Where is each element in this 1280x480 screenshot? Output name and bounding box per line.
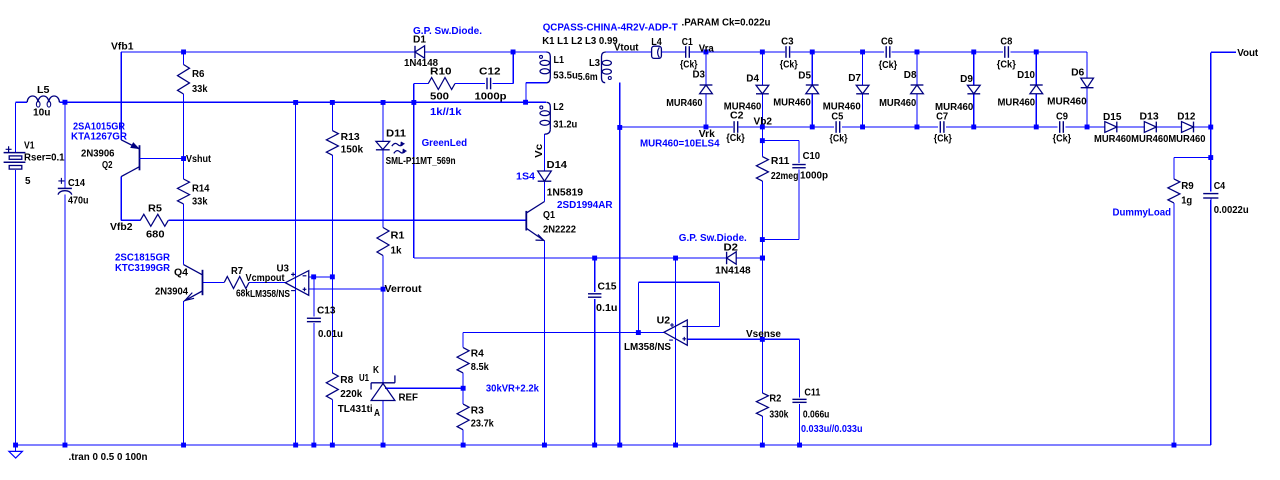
wire Q1 emitter to ground [544, 241, 546, 445]
svg-text:MUR460: MUR460 [823, 102, 861, 113]
node label Vb2 [754, 117, 773, 128]
svg-text:Q4: Q4 [174, 268, 188, 279]
svg-text:C14: C14 [68, 178, 85, 189]
svg-text:R1: R1 [391, 231, 405, 242]
svg-text:R8: R8 [340, 375, 353, 386]
svg-text:31.2u: 31.2u [553, 120, 577, 131]
svg-text:.tran 0 0.5 0 100n: .tran 0 0.5 0 100n [69, 452, 148, 463]
junction ground/C15 [592, 443, 597, 448]
capacitor C7 [934, 111, 952, 144]
svg-text:D10: D10 [1017, 70, 1035, 81]
junction ground/V1 [13, 443, 18, 448]
svg-text:C3: C3 [781, 37, 794, 48]
svg-text:1000p: 1000p [800, 171, 828, 182]
junction Vout column [1208, 125, 1213, 130]
svg-text:C12: C12 [479, 67, 501, 78]
resistor R9 [1168, 179, 1194, 207]
junction node Vra [704, 50, 709, 55]
junction Vsense/D2 column [760, 256, 765, 261]
wire R2 branch [761, 339, 763, 445]
junction ground/R3 [461, 443, 466, 448]
svg-text:L1: L1 [554, 55, 565, 66]
junction D10 bottom [1034, 125, 1039, 130]
op-amp U2 (LM358) [624, 315, 687, 353]
capacitor C5 [830, 111, 848, 144]
svg-text:0.0022u: 0.0022u [1214, 205, 1249, 216]
svg-text:MUR460: MUR460 [879, 98, 917, 109]
svg-text:{Ck}: {Ck} [1053, 134, 1072, 145]
node label Vfb1 [111, 42, 134, 53]
junction ground/C13 [311, 443, 316, 448]
diode D13 [1140, 111, 1160, 132]
diode D5 [773, 70, 818, 108]
capacitor C13 [307, 306, 343, 341]
svg-text:U2: U2 [657, 315, 671, 326]
svg-text:C5: C5 [831, 111, 843, 122]
svg-text:500: 500 [430, 92, 449, 103]
capacitor C14 (polarised) [58, 178, 89, 207]
svg-text:R11: R11 [771, 156, 790, 167]
svg-text:Verrout: Verrout [385, 284, 423, 295]
svg-text:REF: REF [399, 393, 419, 404]
svg-text:1N4148: 1N4148 [715, 266, 751, 277]
junction D6 bottom [1085, 125, 1090, 130]
svg-text:10u: 10u [33, 108, 51, 119]
wire U2 power drop [675, 258, 677, 445]
wire D3 leads [705, 52, 707, 127]
svg-text:0.033u//0.033u: 0.033u//0.033u [801, 424, 863, 435]
junction D10 top [1034, 50, 1039, 55]
node label Vfb2 [110, 222, 133, 233]
svg-text:D13: D13 [1140, 111, 1160, 122]
junction C13 tap [311, 274, 316, 279]
junction ground/R8 [330, 443, 335, 448]
wire box left vertical [413, 102, 415, 258]
svg-text:22meg: 22meg [771, 171, 799, 182]
comment 30kVR+2.2k [486, 384, 539, 395]
svg-text:D5: D5 [798, 70, 811, 81]
svg-text:33k: 33k [192, 84, 208, 95]
node label Vra [699, 44, 714, 55]
wire net Vfb1 top rail [121, 52, 546, 140]
capacitor C6 [879, 37, 898, 71]
junction R11/C10 bottom [760, 237, 765, 242]
junction rail/U3 V+ [293, 100, 298, 105]
svg-text:Vfb1: Vfb1 [111, 42, 134, 53]
svg-text:C6: C6 [881, 37, 893, 48]
svg-text:R6: R6 [192, 69, 205, 80]
diode D7 [823, 73, 869, 113]
svg-text:R2: R2 [769, 394, 781, 405]
svg-text:Vtout: Vtout [614, 42, 639, 53]
wire R6-R14 chain [183, 52, 185, 445]
resistor R13 [326, 131, 363, 156]
junction C15 top [592, 256, 597, 261]
wire U2 feedback loop [638, 282, 719, 332]
svg-text:1N5819: 1N5819 [547, 187, 584, 198]
wire REF line [385, 387, 463, 389]
diode D8 [879, 70, 923, 109]
junction D5 bottom [810, 125, 815, 130]
junction ground/C11 [797, 443, 802, 448]
wire C15 branch [594, 258, 596, 445]
svg-text:MUR460: MUR460 [935, 102, 974, 113]
svg-text:LM358/NS: LM358/NS [624, 342, 671, 353]
resistor R2 [756, 393, 788, 421]
svg-text:L4: L4 [651, 37, 662, 48]
junction D7 top [860, 50, 865, 55]
svg-text:D12: D12 [1177, 111, 1196, 122]
svg-text:R9: R9 [1181, 181, 1194, 192]
comment 1k//1k [430, 107, 462, 118]
inductor L4 (bead) [651, 37, 662, 59]
capacitor C3 [780, 37, 798, 71]
wire L3 return [619, 83, 621, 445]
svg-text:Q1: Q1 [543, 210, 555, 221]
svg-text:U3: U3 [277, 264, 290, 275]
resistor R6 [178, 65, 208, 96]
svg-text:330k: 330k [769, 410, 788, 421]
svg-text:2SC1815GR: 2SC1815GR [115, 253, 171, 264]
svg-text:G.P. Sw.Diode.: G.P. Sw.Diode. [679, 233, 747, 244]
svg-text:D8: D8 [904, 70, 917, 81]
LED D11 [376, 129, 467, 168]
wire D14 to Q1 collector [544, 182, 546, 202]
junction ground/U2 V- [673, 443, 678, 448]
svg-text:SML-P11MT_569n: SML-P11MT_569n [386, 156, 456, 167]
comment DummyLoad [1113, 207, 1172, 218]
wire net Vout [1211, 52, 1236, 127]
wire Vout to loads [1210, 127, 1212, 445]
junction node Vshut [181, 156, 186, 161]
wire U2 output to R4 [463, 333, 664, 348]
spice directive K1 coupling [542, 36, 618, 47]
svg-text:MUR460=10ELS4: MUR460=10ELS4 [640, 139, 720, 150]
resistor R8 [326, 373, 362, 400]
svg-text:L3: L3 [589, 58, 600, 69]
resistor R1 [377, 228, 405, 257]
svg-text:R4: R4 [471, 349, 484, 360]
svg-text:C1: C1 [682, 37, 693, 48]
svg-text:8.5k: 8.5k [471, 362, 489, 373]
voltage source V1 [4, 141, 65, 188]
transistor Q2 (PNP) [71, 121, 184, 176]
junction REF node [461, 386, 466, 391]
svg-text:D6: D6 [1071, 68, 1085, 79]
svg-text:Vcmpout: Vcmpout [246, 273, 286, 284]
junction Vfb1/R6 [181, 50, 186, 55]
wire net Vcmpout [249, 282, 285, 284]
junction ground/Q4 emitter [181, 443, 186, 448]
comment transformer spec [543, 23, 678, 34]
svg-text:150k: 150k [341, 145, 364, 156]
svg-text:33k: 33k [192, 197, 208, 208]
svg-text:2SD1994AR: 2SD1994AR [557, 200, 613, 211]
wire mid rail y258 [414, 257, 763, 259]
junction U2 V+ tap [673, 256, 678, 261]
junction ground/C14 [63, 443, 68, 448]
svg-text:Vfb2: Vfb2 [110, 222, 133, 233]
svg-text:KTC3199GR: KTC3199GR [115, 263, 171, 274]
wire CW top rail [690, 51, 1087, 53]
wire ground rail [16, 199, 1211, 446]
svg-text:Vout: Vout [1237, 48, 1259, 59]
wire Q2 collector drop [120, 177, 122, 221]
transistor Q1 (NPN) [526, 202, 576, 241]
svg-text:MUR460: MUR460 [666, 98, 703, 109]
op-amp U3 (LM358) [250, 264, 309, 301]
junction ground/Q1 emitter [542, 443, 547, 448]
svg-text:V1: V1 [24, 141, 35, 152]
svg-text:C15: C15 [598, 281, 617, 292]
spice directive .PARAM [682, 17, 771, 28]
svg-text:K1 L1 L2 L3 0.99: K1 L1 L2 L3 0.99 [542, 36, 618, 47]
svg-text:R14: R14 [192, 184, 210, 195]
svg-text:470u: 470u [68, 196, 89, 207]
svg-text:GreenLed: GreenLed [422, 138, 468, 149]
capacitor C1 [680, 37, 698, 71]
svg-text:C10: C10 [803, 151, 821, 162]
ground [9, 445, 23, 458]
comment MUR460=10ELS4 [640, 139, 720, 150]
svg-text:Vc: Vc [534, 143, 545, 157]
svg-text:D14: D14 [547, 160, 568, 171]
junction node Vrk [704, 125, 709, 130]
svg-text:1k: 1k [391, 246, 402, 257]
svg-text:680: 680 [146, 230, 165, 241]
capacitor C10 [792, 151, 828, 181]
svg-text:0.066u: 0.066u [803, 410, 830, 421]
svg-text:{Ck}: {Ck} [934, 134, 952, 145]
svg-text:Vsense: Vsense [746, 329, 781, 340]
node label Vc [534, 143, 545, 157]
junction D1-C12-L1 node [511, 50, 516, 55]
wire C10 branch [762, 141, 799, 240]
junction Vsense/R2 [760, 337, 765, 342]
svg-text:1k//1k: 1k//1k [430, 107, 462, 118]
svg-text:D3: D3 [693, 70, 706, 81]
capacitor C11 [792, 387, 862, 434]
wire C13 branch [313, 277, 315, 445]
capacitor C4 [1203, 181, 1249, 216]
svg-text:MUR460: MUR460 [773, 97, 811, 108]
svg-text:DummyLoad: DummyLoad [1113, 207, 1172, 218]
svg-text:MUR460: MUR460 [1047, 96, 1087, 107]
svg-text:.PARAM Ck=0.022u: .PARAM Ck=0.022u [682, 17, 771, 28]
svg-text:MUR460: MUR460 [998, 97, 1036, 108]
wire snubber [414, 52, 514, 102]
svg-text:D11: D11 [386, 129, 406, 140]
diode D14 [516, 160, 613, 211]
junction D5 top [810, 50, 815, 55]
svg-text:2SA1015GR: 2SA1015GR [73, 121, 126, 132]
svg-text:U1: U1 [359, 373, 369, 384]
junction L5/C14 [63, 100, 68, 105]
svg-text:1g: 1g [1181, 196, 1192, 207]
svg-text:0.01u: 0.01u [318, 329, 343, 340]
diode D1 [404, 26, 482, 69]
junction ground/L3 [617, 443, 622, 448]
svg-text:53.5u: 53.5u [553, 71, 578, 82]
junction rail/R13 [330, 100, 335, 105]
node label Vcmpout [246, 273, 286, 284]
svg-text:C4: C4 [1214, 181, 1226, 192]
junction D2 anode node [760, 256, 765, 261]
junction ground/R9 [1172, 443, 1177, 448]
svg-text:LM358/NS: LM358/NS [250, 289, 290, 300]
diode D6 [1047, 68, 1093, 108]
junction node Verrout [381, 287, 386, 292]
wire C11 branch [799, 339, 801, 445]
wire supply rail y102 [16, 101, 547, 103]
junction D9 top [971, 50, 976, 55]
capacitor C8 [997, 37, 1016, 71]
wire R4-R3 divider [462, 373, 464, 445]
diode D12 [1177, 111, 1196, 132]
wire D11-R1-U1 chain [382, 102, 384, 445]
junction ground/U3 V- [293, 443, 298, 448]
junction rail/R10 box [411, 100, 416, 105]
svg-text:TL431ti: TL431ti [338, 404, 373, 415]
svg-text:5: 5 [25, 176, 31, 187]
svg-text:R3: R3 [471, 406, 484, 417]
shunt regulator U1 (TL431) [338, 365, 418, 419]
junction D9 bottom [971, 125, 976, 130]
svg-text:1000p: 1000p [475, 92, 507, 103]
node label Vout [1237, 48, 1259, 59]
wire D6 leads [1086, 52, 1088, 127]
svg-text:A: A [374, 408, 380, 419]
junction node Vb2 [760, 125, 765, 130]
wire R9 branch [1174, 158, 1211, 446]
svg-text:R7: R7 [231, 266, 243, 277]
junction ground/U1 anode [381, 443, 386, 448]
wire D4 leads [761, 52, 763, 127]
wire D8 leads [916, 52, 918, 127]
svg-text:Rser=0.1: Rser=0.1 [24, 153, 65, 164]
wire C14 branch [64, 102, 66, 445]
svg-text:Vshut: Vshut [186, 154, 212, 165]
svg-text:30kVR+2.2k: 30kVR+2.2k [486, 384, 539, 395]
wire CW lower rail [620, 126, 1211, 128]
svg-text:2N3904: 2N3904 [155, 287, 188, 298]
junction D8 top [915, 50, 920, 55]
svg-text:C11: C11 [804, 387, 820, 398]
diode D9 [935, 74, 980, 113]
junction L3/CW lower rail [617, 125, 622, 130]
diode D2 [679, 233, 751, 277]
svg-text:Vb2: Vb2 [754, 117, 773, 128]
junction D7 bottom [860, 125, 865, 130]
svg-text:R5: R5 [148, 204, 162, 215]
junction R13/R8 divider tap [330, 274, 335, 279]
wire net Vc [544, 134, 546, 171]
svg-text:L2: L2 [553, 102, 564, 113]
diode D15 [1103, 112, 1122, 133]
svg-text:D7: D7 [848, 73, 861, 84]
svg-text:2N3906: 2N3906 [81, 149, 115, 160]
diode D4 [724, 73, 769, 112]
node label Verrout [385, 284, 423, 295]
resistor R3 [457, 404, 494, 430]
svg-text:0.1u: 0.1u [596, 303, 618, 314]
svg-text:MUR460MUR460MUR460: MUR460MUR460MUR460 [1094, 134, 1206, 145]
wire net Vsense [687, 338, 799, 340]
inductor L3 [578, 52, 612, 83]
wire D5 leads [811, 52, 813, 127]
resistor R4 [457, 348, 489, 373]
value labels MUR460 x3 [1094, 134, 1206, 145]
wire U3 plus input [309, 288, 383, 290]
svg-text:{Ck}: {Ck} [879, 60, 898, 71]
junction D8 bottom [915, 125, 920, 130]
svg-text:C9: C9 [1056, 111, 1068, 122]
junction R9 tap [1208, 155, 1213, 160]
svg-text:23.7k: 23.7k [471, 419, 494, 430]
svg-text:G.P. Sw.Diode.: G.P. Sw.Diode. [413, 26, 482, 37]
diode D10 [998, 70, 1043, 109]
inductor L2 [540, 102, 578, 134]
svg-text:L5: L5 [37, 85, 50, 96]
svg-text:220k: 220k [340, 389, 362, 400]
svg-text:{Ck}: {Ck} [726, 133, 745, 144]
inductor L5 [27, 85, 59, 119]
svg-text:Q2: Q2 [102, 160, 113, 171]
wire Q4 base [203, 282, 225, 284]
svg-text:KTA1267GR: KTA1267GR [71, 132, 128, 143]
transistor Q4 (NPN) [115, 253, 203, 301]
svg-text:R13: R13 [341, 132, 360, 143]
junction rail/D11 [381, 100, 386, 105]
svg-text:K: K [373, 365, 380, 376]
wire Vb2 drop [761, 127, 763, 339]
resistor R14 [178, 179, 210, 208]
svg-text:68k: 68k [236, 289, 250, 300]
junction rail/L1-L2 [523, 100, 528, 105]
wire U3 minus input [309, 276, 333, 278]
svg-text:5.6m: 5.6m [578, 72, 598, 83]
node label Vsense [746, 329, 781, 340]
wire U3 power rail [295, 102, 297, 445]
wire D9 leads [973, 52, 975, 127]
svg-text:2N2222: 2N2222 [543, 224, 576, 235]
svg-text:{Ck}: {Ck} [830, 134, 848, 145]
wire V1 vertical [15, 102, 17, 445]
resistor R11 [756, 156, 798, 182]
diode D3 [666, 70, 712, 109]
junction D4 top [760, 50, 765, 55]
svg-text:Vra: Vra [699, 44, 714, 55]
junction ground/R2 [760, 443, 765, 448]
capacitor C2 [726, 110, 745, 144]
wire D7 leads [862, 52, 864, 127]
svg-text:D4: D4 [746, 73, 759, 84]
svg-text:C13: C13 [317, 306, 336, 317]
junction U2 feedback tap [636, 330, 641, 335]
svg-text:1S4: 1S4 [516, 171, 535, 182]
svg-text:C8: C8 [1000, 37, 1012, 48]
svg-text:D15: D15 [1103, 112, 1122, 123]
wire R13-R8 chain [331, 102, 333, 445]
wire net Vtout [606, 51, 685, 53]
svg-text:D9: D9 [960, 74, 973, 85]
svg-text:R10: R10 [430, 67, 452, 78]
resistor R7 [224, 266, 250, 300]
svg-text:{Ck}: {Ck} [997, 59, 1016, 70]
resistor R10 [428, 67, 455, 103]
svg-text:MUR460: MUR460 [724, 101, 762, 112]
wire net Vfb2 base line [121, 219, 526, 221]
